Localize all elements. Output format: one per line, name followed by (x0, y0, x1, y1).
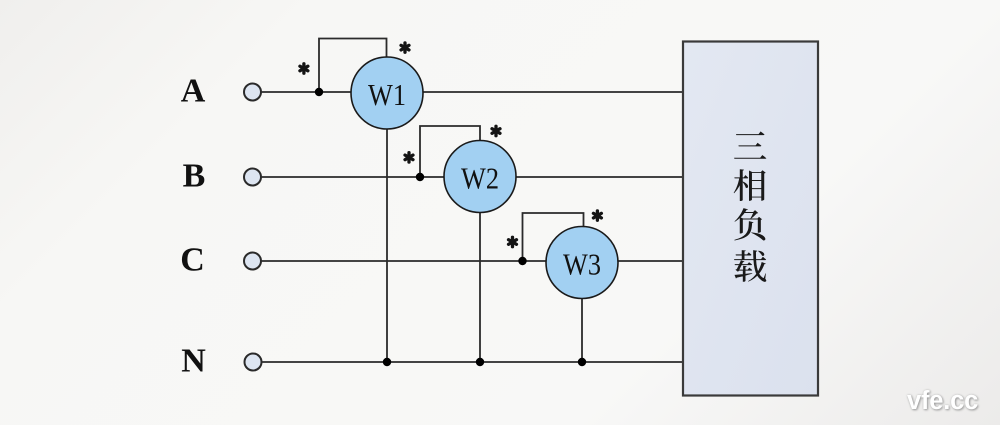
wire W1 drop to neutral (386, 128, 388, 362)
load label char 2: xiang (phase) (734, 169, 766, 201)
polarity mark W2 current (405, 153, 413, 162)
wire W3 voltage branch (523, 213, 584, 261)
svg-text:A: A (181, 73, 206, 110)
svg-text:C: C (180, 242, 205, 279)
wire phase C right segment (619, 260, 685, 262)
wire phase A left segment (262, 91, 352, 93)
polarity mark W2 voltage (492, 126, 500, 135)
polarity mark W1 voltage (401, 43, 409, 52)
svg-text:W1: W1 (368, 77, 406, 112)
wire neutral N (262, 361, 685, 363)
terminal C (244, 253, 261, 270)
wattmeter W1 (351, 57, 423, 129)
wire phase B left segment (262, 176, 445, 178)
load label char 4: zai (carry) (734, 250, 766, 282)
polarity mark W1 current (300, 64, 308, 73)
svg-text:B: B (183, 158, 206, 195)
wire phase C left segment (262, 260, 547, 262)
svg-text:W3: W3 (563, 247, 601, 282)
wire W2 voltage branch (420, 126, 480, 177)
wire W1 voltage branch (319, 39, 387, 93)
junction dot phase B (416, 173, 424, 181)
watermark vfe.cc (907, 390, 978, 412)
wattmeter W3 (546, 227, 618, 299)
wattmeter W2 (444, 141, 516, 213)
terminal N (245, 354, 262, 371)
load box (three-phase load) (683, 42, 818, 396)
svg-text:N: N (181, 343, 206, 380)
svg-text:W2: W2 (461, 161, 499, 196)
junction dot neutral under W2 (476, 358, 484, 366)
wire W2 drop to neutral (479, 212, 481, 363)
load label char 1: san (three) (734, 131, 766, 158)
junction dot phase A (315, 88, 323, 96)
polarity mark W3 voltage (593, 211, 601, 220)
wire phase B right segment (517, 176, 685, 178)
wire phase A right segment (423, 91, 684, 93)
load label char 3: fu (load) (734, 208, 765, 240)
junction dot phase C (518, 257, 526, 265)
junction dot neutral under W1 (383, 358, 391, 366)
polarity mark W3 current (509, 237, 517, 246)
wire W3 drop to neutral (581, 298, 583, 363)
junction dot neutral under W3 (578, 358, 586, 366)
terminal B (244, 169, 261, 186)
terminal A (244, 84, 261, 101)
